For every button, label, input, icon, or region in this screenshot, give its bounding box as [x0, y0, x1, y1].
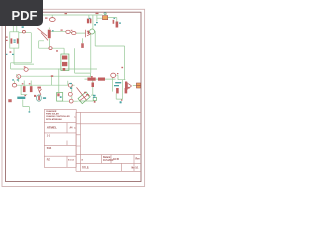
svg-text:CHARGE CONTROLLER: CHARGE CONTROLLER [46, 115, 70, 118]
svg-text:1-1: 1-1 [47, 136, 51, 138]
svg-text:F.E: F.E [47, 160, 51, 162]
svg-text:WITH ATMEGA8: WITH ATMEGA8 [46, 118, 62, 121]
svg-text:TITLE:: TITLE: [82, 168, 89, 170]
svg-text:A4: A4 [70, 126, 74, 129]
svg-text:9.5.14: 9.5.14 [68, 159, 74, 162]
svg-text:No 1/1: No 1/1 [132, 168, 140, 170]
svg-text:5/14: 5/14 [47, 147, 52, 150]
svg-text:19:45: 19:45 [113, 158, 120, 161]
svg-text:CHARGER: CHARGER [46, 110, 57, 113]
svg-text:Rev: Rev [136, 159, 141, 161]
svg-text:a: a [82, 160, 84, 162]
svg-text:PWM SOLAR: PWM SOLAR [46, 113, 59, 116]
svg-text:ATMEL: ATMEL [47, 125, 57, 129]
svg-text:Datum:: Datum: [103, 156, 111, 159]
